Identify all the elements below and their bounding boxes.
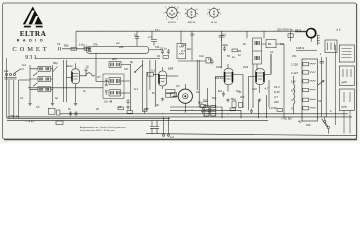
svg-text:a 4: a 4 bbox=[170, 135, 174, 139]
svg-text:C14: C14 bbox=[199, 54, 204, 58]
svg-text:0,5: 0,5 bbox=[176, 84, 180, 88]
svg-text:27k: 27k bbox=[93, 43, 98, 47]
svg-text:50µ: 50µ bbox=[231, 97, 236, 101]
svg-text:Aufgenommen am : Gerät in Seri: Aufgenommen am : Gerät in Serie gemessen bbox=[79, 126, 126, 129]
svg-text:+ 05, B3: + 05, B3 bbox=[281, 117, 292, 121]
svg-text:a b: a b bbox=[337, 28, 341, 32]
svg-text:Ch. 48: Ch. 48 bbox=[104, 100, 113, 104]
svg-text:220p: 220p bbox=[222, 43, 229, 47]
svg-text:4,7: 4,7 bbox=[265, 87, 269, 91]
svg-text:0,1: 0,1 bbox=[270, 50, 274, 54]
svg-text:200: 200 bbox=[240, 95, 245, 99]
svg-text:1M: 1M bbox=[280, 42, 284, 46]
svg-text:6,3V: 6,3V bbox=[274, 90, 280, 94]
svg-text:220: 220 bbox=[306, 123, 311, 127]
svg-text:5: 5 bbox=[180, 13, 181, 15]
svg-text:C16: C16 bbox=[181, 43, 187, 47]
svg-text:a,b: a,b bbox=[116, 41, 120, 45]
svg-text:C1: C1 bbox=[20, 96, 24, 100]
svg-text:grün: grün bbox=[342, 105, 348, 109]
svg-text:5p: 5p bbox=[130, 60, 134, 64]
svg-text:0,1: 0,1 bbox=[83, 44, 87, 48]
svg-text:2 127: 2 127 bbox=[291, 71, 298, 75]
svg-text:C48 Ω: C48 Ω bbox=[296, 46, 304, 50]
svg-text:— 4 4+: — 4 4+ bbox=[25, 119, 34, 123]
svg-text:AZ 4: AZ 4 bbox=[295, 28, 301, 32]
svg-text:EL 84: EL 84 bbox=[211, 22, 217, 24]
svg-text:220 4700 4a: 220 4700 4a bbox=[277, 28, 293, 32]
svg-text:2n: 2n bbox=[86, 65, 90, 69]
svg-text:4Ω: 4Ω bbox=[298, 120, 302, 124]
svg-text:6: 6 bbox=[219, 9, 220, 11]
svg-text:EBF 89: EBF 89 bbox=[188, 22, 196, 24]
svg-text:110: 110 bbox=[291, 80, 296, 84]
svg-text:C21: C21 bbox=[243, 65, 249, 69]
svg-text:1: 1 bbox=[185, 9, 186, 11]
svg-text:C11: C11 bbox=[155, 45, 160, 49]
svg-text:ECH: ECH bbox=[67, 64, 73, 68]
svg-text:C3: C3 bbox=[36, 105, 40, 109]
svg-text:1M: 1M bbox=[218, 89, 223, 93]
svg-text:25n: 25n bbox=[292, 54, 297, 58]
svg-text:4,7: 4,7 bbox=[181, 49, 185, 53]
svg-text:0,1: 0,1 bbox=[238, 90, 242, 94]
svg-text:ECH 81: ECH 81 bbox=[168, 22, 176, 24]
svg-text:3: 3 bbox=[166, 19, 167, 21]
svg-text:EBF: EBF bbox=[168, 67, 174, 71]
svg-text:1: 1 bbox=[165, 7, 166, 9]
svg-text:931: 931 bbox=[25, 55, 38, 61]
svg-text:220: 220 bbox=[112, 57, 117, 61]
svg-text:A E: A E bbox=[4, 69, 8, 73]
svg-text:41 V: 41 V bbox=[274, 85, 280, 89]
svg-text:Gezeichnet bei 220 V~ 50 Hz ne: Gezeichnet bei 220 V~ 50 Hz netz bbox=[80, 129, 116, 132]
svg-text:25µ 4+: 25µ 4+ bbox=[10, 114, 19, 118]
svg-text:2: 2 bbox=[207, 14, 208, 16]
svg-text:C7: C7 bbox=[97, 75, 101, 79]
svg-text:6: 6 bbox=[178, 7, 179, 9]
svg-text:2 220: 2 220 bbox=[291, 63, 298, 67]
svg-text:4: 4 bbox=[177, 19, 178, 21]
svg-text:C19: C19 bbox=[216, 65, 222, 69]
svg-text:B1: B1 bbox=[268, 42, 272, 46]
svg-text:3n: 3n bbox=[156, 103, 160, 107]
svg-text:20 1n: 20 1n bbox=[160, 47, 167, 51]
svg-text:5: 5 bbox=[220, 14, 221, 16]
svg-text:ELTRA: ELTRA bbox=[20, 30, 47, 38]
svg-text:30p: 30p bbox=[53, 61, 58, 65]
svg-text:6: 6 bbox=[197, 9, 198, 11]
svg-text:1: 1 bbox=[208, 9, 209, 11]
svg-text:220: 220 bbox=[274, 100, 279, 104]
svg-text:0,1: 0,1 bbox=[151, 69, 155, 73]
svg-text:COMET: COMET bbox=[12, 46, 49, 53]
svg-text:1,0 50: 1,0 50 bbox=[269, 106, 277, 110]
svg-text:2: 2 bbox=[164, 13, 165, 15]
svg-text:50µ: 50µ bbox=[212, 96, 217, 100]
svg-text:C9: C9 bbox=[124, 67, 128, 71]
svg-text:RADIO: RADIO bbox=[17, 39, 47, 43]
svg-text:0,1: 0,1 bbox=[222, 33, 226, 37]
svg-text:0,2: 0,2 bbox=[22, 63, 26, 67]
svg-text:110: 110 bbox=[187, 47, 192, 51]
svg-text:A B C: A B C bbox=[155, 29, 161, 32]
svg-text:S2: S2 bbox=[318, 99, 322, 103]
svg-text:C22: C22 bbox=[252, 87, 257, 91]
svg-text:b d: b d bbox=[79, 43, 83, 47]
svg-text:5: 5 bbox=[198, 14, 199, 16]
svg-text:C8: C8 bbox=[118, 105, 122, 109]
svg-text:1M: 1M bbox=[196, 90, 200, 94]
svg-text:20p: 20p bbox=[119, 45, 124, 49]
svg-text:22k: 22k bbox=[190, 33, 195, 37]
svg-text:4,7: 4,7 bbox=[274, 95, 278, 99]
svg-text:6,3: 6,3 bbox=[291, 89, 295, 93]
svg-text:50k: 50k bbox=[64, 44, 69, 48]
svg-text:1n: 1n bbox=[134, 33, 138, 37]
svg-text:1n: 1n bbox=[232, 55, 236, 59]
svg-text:1n: 1n bbox=[238, 53, 242, 57]
svg-text:gelb: gelb bbox=[342, 80, 348, 84]
svg-text:0,1: 0,1 bbox=[134, 87, 138, 91]
svg-text:4,7: 4,7 bbox=[148, 35, 152, 39]
svg-text:50µ: 50µ bbox=[198, 101, 203, 105]
svg-text:2: 2 bbox=[185, 14, 186, 16]
svg-text:C2: C2 bbox=[57, 42, 61, 46]
